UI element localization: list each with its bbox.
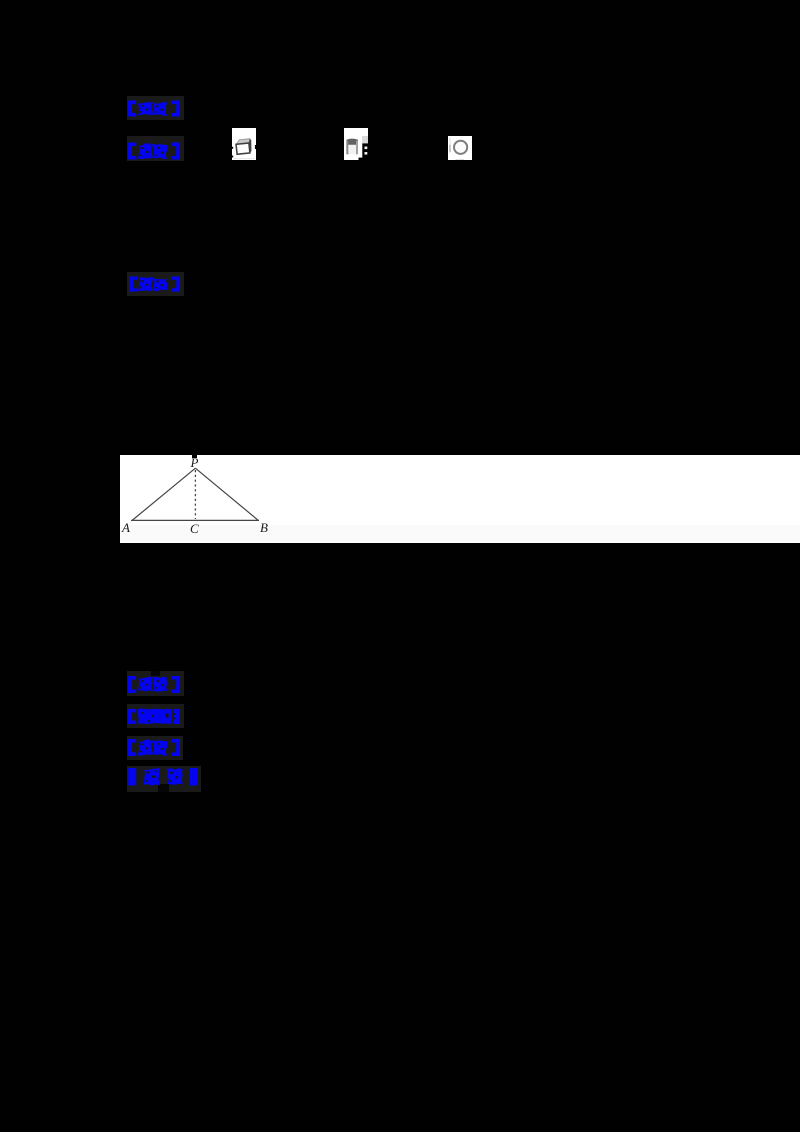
option image C: circle [448, 136, 472, 161]
base AB [131, 519, 259, 521]
marker M4 blue tag (spaced) [128, 767, 198, 786]
marker T2 blue tag [128, 142, 180, 160]
black notch at top near P [192, 455, 197, 458]
faint bottom line [234, 157, 255, 160]
option image A: cube [232, 128, 256, 160]
label A [122, 520, 130, 536]
cylinder body [347, 141, 359, 155]
dashed PC [194, 470, 196, 519]
marker M2 halo [127, 704, 184, 728]
cube top face [236, 139, 250, 145]
marker T2 halo [127, 136, 184, 161]
white figure band [120, 455, 800, 543]
cube front face [236, 143, 250, 154]
marker M1 halo [127, 671, 184, 696]
small black notches on box edges [232, 147, 233, 149]
marker M4 halo [127, 766, 201, 792]
side PA [132, 468, 195, 520]
marker M1 blue tag [128, 675, 180, 694]
label C [190, 521, 199, 537]
label B [260, 520, 268, 536]
marker M3 blue tag [128, 738, 180, 757]
marker T1 blue tag [128, 100, 180, 117]
option image B: cylinder [344, 128, 368, 160]
marker T3 blue tag [129, 276, 180, 292]
side PB [195, 468, 258, 520]
marker M3 halo [127, 736, 183, 760]
marker T3 halo [127, 272, 184, 296]
gray square top-right [362, 136, 368, 143]
label P [191, 455, 199, 471]
cube right dark edge [248, 139, 252, 153]
marker M2 blue tag [128, 708, 180, 725]
black glyph fragment (letter remnants) [362, 143, 368, 160]
marker T1 halo [127, 96, 184, 120]
triangle figure [120, 455, 320, 543]
